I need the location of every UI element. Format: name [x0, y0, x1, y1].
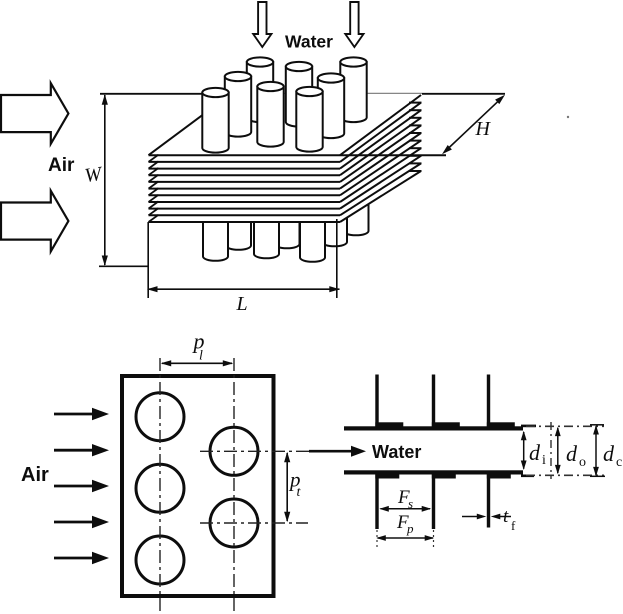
fin back edge stub 8 — [409, 147, 422, 149]
front view rectangle — [122, 376, 274, 596]
fin left edge stub 10 — [149, 208, 159, 215]
top fin left edge diagonal — [149, 94, 232, 155]
L extension line left — [147, 222, 149, 298]
air arrow 5 — [54, 557, 93, 560]
fin top collar 1 — [375, 422, 403, 426]
centerline vertical left — [159, 358, 161, 612]
svg-text:d: d — [566, 441, 578, 466]
L dimension line — [148, 288, 340, 290]
bottom cylinder back-right R2 — [344, 200, 369, 235]
svg-text:s: s — [408, 496, 413, 511]
fin right edge diagonal 2 — [340, 103, 421, 162]
top cylinder mid B — [225, 77, 251, 137]
fin front edge 5 — [149, 181, 341, 183]
W bottom tick — [99, 265, 149, 267]
fin right edge diagonal 4 — [340, 118, 421, 175]
water down arrow 1 — [253, 2, 271, 47]
bottom-right collar stub — [521, 475, 534, 478]
tube circle left 1 — [136, 393, 184, 441]
p_t dimension — [286, 453, 288, 521]
L extension line right — [336, 219, 338, 298]
svg-text:l: l — [199, 349, 203, 364]
d_i dimension — [523, 432, 525, 469]
air arrow 2 — [54, 449, 93, 452]
fin front edge 10 — [149, 214, 341, 216]
svg-text:i: i — [542, 453, 546, 468]
H dimension arrow — [446, 99, 501, 151]
svg-text:d: d — [603, 441, 615, 466]
fin front edge 6 — [149, 188, 341, 190]
fin bottom 2 — [432, 474, 435, 530]
svg-text:Air: Air — [21, 464, 49, 486]
svg-text:t: t — [503, 506, 509, 527]
tube circle left 3 — [136, 536, 184, 584]
svg-text:o: o — [579, 455, 586, 470]
t_f arrows — [462, 516, 478, 518]
fin left edge stub 8 — [149, 195, 159, 202]
fin front edge 4 — [149, 174, 341, 176]
tube circle left 2 — [136, 464, 184, 512]
air block arrow 1 — [1, 83, 68, 144]
fin left edge stub 2 — [149, 155, 159, 162]
water arrow (bottom right) — [309, 450, 353, 453]
tube circle right 1 — [210, 427, 258, 475]
fin back edge stub 5 — [409, 124, 422, 126]
fin top 3 — [487, 375, 490, 428]
fin back edge stub 6 — [409, 132, 422, 134]
top cylinder back C — [247, 62, 273, 122]
top cylinder back H2 — [340, 62, 366, 122]
svg-text:Air: Air — [48, 155, 75, 176]
fin left edge stub 3 — [149, 161, 159, 168]
fin right edge diagonal 8 — [340, 148, 421, 202]
bottom cylinder back-right R1 — [322, 205, 347, 246]
fin top 1 — [375, 375, 378, 428]
svg-text:d: d — [529, 440, 541, 465]
air arrow 3 — [54, 485, 93, 488]
fin top collar 3 — [487, 422, 515, 426]
F_p dotted extension left — [376, 530, 378, 548]
fin right edge diagonal 6 — [340, 133, 421, 189]
fin front edge 3 — [149, 168, 341, 170]
fin front edge 1 + right extension line — [149, 154, 447, 156]
svg-text:p: p — [406, 521, 414, 536]
top-right collar stub — [521, 425, 536, 428]
bottom cylinder front P1 — [203, 216, 228, 261]
fin back edge stub 10 — [409, 162, 422, 164]
d_c dimension — [595, 426, 597, 475]
fin back edge stub 11 — [409, 170, 422, 172]
fin right edge diagonal 1 — [340, 95, 421, 155]
fin left edge stub 5 — [149, 175, 159, 182]
bottom cylinder front P2 — [254, 216, 279, 258]
fin front edge 11 — [149, 221, 341, 223]
fin stack silhouette — [149, 94, 423, 223]
bottom cylinder front P3 — [300, 216, 325, 262]
fin bottom collar 2 — [432, 475, 456, 479]
fin left edge stub 7 — [149, 188, 159, 195]
fin left edge stub 6 — [149, 181, 159, 188]
F_s dimension — [381, 508, 431, 510]
tube top wall — [344, 426, 523, 430]
top cylinder mid G — [318, 78, 344, 138]
fin top collar 2 — [432, 422, 460, 426]
fin bottom collar 1 — [375, 475, 399, 479]
dashed extension top — [526, 425, 604, 427]
p_l dimension — [162, 362, 232, 364]
fin back edge stub 9 — [409, 155, 422, 157]
fin left edge stub 11 — [149, 215, 159, 222]
svg-text:H: H — [475, 118, 492, 140]
dashed extension bottom — [526, 474, 604, 476]
centerline horizontal lower — [200, 522, 308, 524]
fin right edge diagonal 3 — [340, 110, 421, 168]
fin back edge stub 4 — [409, 117, 422, 119]
d_o dimension — [557, 428, 559, 473]
fin back edge stub 2 — [409, 102, 422, 104]
fin bottom 1 — [375, 474, 378, 530]
top cylinder front A — [202, 93, 228, 153]
F_p dimension — [378, 537, 434, 539]
top cylinder mid D — [257, 87, 283, 147]
svg-text:Water: Water — [285, 32, 333, 52]
svg-text:L: L — [236, 293, 248, 315]
air arrow 4 — [54, 521, 93, 524]
centerline vertical right — [233, 358, 235, 612]
fin front edge 2 — [149, 161, 341, 163]
fin right edge diagonal 10 — [340, 163, 421, 215]
fin right edge diagonal 11 — [340, 171, 421, 222]
fin back edge stub 7 — [409, 140, 422, 142]
long back-edge / W-H reference line — [100, 93, 505, 95]
tube bottom wall — [344, 470, 523, 474]
W dimension line — [104, 95, 106, 265]
fin front edge 9 — [149, 208, 341, 210]
fin bottom 3 — [487, 474, 490, 528]
bottom cylinder back Q1 — [226, 213, 251, 250]
air arrow 1 — [54, 413, 93, 416]
d_c top tick — [590, 424, 604, 426]
fin left edge stub 9 — [149, 201, 159, 208]
top cylinder front F — [296, 92, 322, 152]
fin right edge diagonal 5 — [340, 125, 421, 181]
fin front edge 7 — [149, 194, 341, 196]
fin bottom collar 3 — [487, 475, 511, 479]
air block arrow 2 — [1, 191, 68, 252]
fin left edge stub 4 — [149, 168, 159, 175]
svg-text:c: c — [616, 455, 622, 470]
F_p dotted extension right — [433, 530, 435, 548]
fin back edge stub 3 — [409, 109, 422, 111]
fin right edge diagonal 7 — [340, 141, 421, 196]
d_c bottom tick — [590, 475, 605, 477]
water down arrow 2 — [345, 2, 363, 47]
dash-dot vertical — [550, 422, 552, 479]
centerline horizontal upper — [200, 450, 316, 452]
tiny speck — [567, 116, 569, 118]
svg-text:Water: Water — [372, 442, 421, 462]
top cylinder mid E — [286, 67, 312, 127]
fin right edge diagonal 9 — [340, 156, 421, 209]
bottom cylinder back Q2 — [275, 213, 300, 248]
svg-text:f: f — [511, 518, 516, 533]
fin top 2 — [432, 375, 435, 428]
tube circle right 2 — [210, 499, 258, 547]
fin front edge 8 — [149, 201, 341, 203]
